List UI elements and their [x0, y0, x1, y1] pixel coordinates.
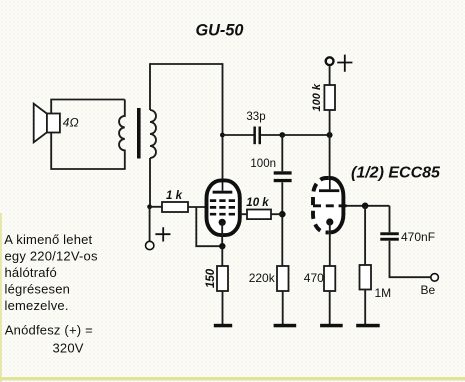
- node D (100k junction): [327, 132, 333, 138]
- node F (cathode junction): [219, 243, 225, 249]
- speaker LS: [34, 104, 60, 143]
- svg-text:(1/2) ECC85: (1/2) ECC85: [351, 165, 441, 182]
- svg-text:Anódfesz (+) =: Anódfesz (+) =: [5, 323, 93, 338]
- terminal Be: [431, 274, 439, 282]
- svg-text:150: 150: [205, 268, 217, 288]
- ground G3: [320, 324, 343, 328]
- wire secondary top: [149, 63, 151, 110]
- svg-text:1 k: 1 k: [166, 190, 183, 202]
- wire top rail: [150, 63, 223, 65]
- terminal +heater: [146, 227, 171, 249]
- wire R-220k to ground: [282, 291, 284, 324]
- terminal +320V: [326, 55, 353, 72]
- node B (33p tap): [220, 133, 225, 138]
- resistor R 150: [217, 266, 228, 291]
- svg-text:10 k: 10 k: [246, 197, 269, 209]
- wire cathode V2 to R-470: [329, 222, 331, 266]
- svg-text:hálótrafó: hálótrafó: [5, 265, 57, 280]
- node C: [279, 132, 285, 138]
- svg-text:Be: Be: [421, 283, 436, 297]
- svg-text:100n: 100n: [250, 158, 276, 170]
- wire grid V1 to R-10k: [241, 213, 248, 215]
- capacitor C 33p: [253, 127, 261, 145]
- svg-text:4Ω: 4Ω: [63, 116, 79, 130]
- wire C-470nF to Be terminal: [390, 241, 431, 278]
- svg-text:A kimenő lehet: A kimenő lehet: [4, 232, 92, 247]
- wire secondary bottom to node: [149, 158, 151, 207]
- ground G1: [214, 324, 232, 328]
- wire R-10k to node E: [271, 213, 282, 215]
- wire cathode V1 down: [221, 222, 223, 246]
- svg-text:220k: 220k: [249, 271, 276, 285]
- wire C-100n to node E: [281, 182, 283, 266]
- capacitor C 100n: [274, 171, 292, 182]
- svg-text:légrésesen: légrésesen: [5, 282, 71, 297]
- resistor R 1k: [162, 202, 188, 212]
- wire cathode loop: [196, 207, 222, 246]
- wire R-470 to ground: [329, 291, 331, 324]
- resistor R 100k: [324, 85, 335, 110]
- svg-text:1M: 1M: [375, 286, 392, 300]
- left yellow border stripe: [0, 213, 2, 382]
- note text: [4, 232, 98, 355]
- node G (grid junction): [362, 203, 369, 210]
- wire R-1M to ground: [364, 290, 366, 325]
- wire node G to R-1M: [364, 206, 366, 265]
- capacitor C 470nF: [380, 232, 399, 240]
- svg-text:320V: 320V: [53, 340, 84, 355]
- wire node to heater terminal: [149, 207, 151, 241]
- wire node B to C-33p: [222, 134, 254, 136]
- wire R-150 to ground: [222, 291, 224, 324]
- resistor R 1M: [360, 265, 372, 290]
- wire node to R-1k: [150, 206, 162, 208]
- svg-text:lemezelve.: lemezelve.: [5, 298, 69, 313]
- svg-text:470: 470: [304, 271, 324, 285]
- wire node C to C-100n: [281, 135, 283, 171]
- resistor R 10k: [247, 210, 271, 220]
- tube V1 GU-50: [207, 180, 240, 235]
- svg-text:100 k: 100 k: [311, 83, 323, 111]
- transformer T1: [119, 100, 156, 170]
- ground G4: [356, 324, 380, 328]
- wire R-1k to grid: [188, 206, 207, 208]
- bottom yellow border stripe: [0, 377, 465, 381]
- wire grid V2 to node G: [347, 205, 390, 207]
- wire C-33p to node C: [261, 134, 282, 136]
- wire anode V1 (top rail down to tube): [222, 63, 224, 178]
- node A (transformer/1k junction): [147, 204, 152, 209]
- wire node C to node D: [282, 134, 329, 136]
- svg-text:egy 220/12V-os: egy 220/12V-os: [5, 249, 98, 264]
- wire speaker loop top: [51, 100, 125, 114]
- svg-text:470nF: 470nF: [401, 230, 435, 244]
- wire anode V2: [329, 135, 331, 190]
- node E (10k/220k junction): [279, 211, 286, 218]
- wire node G branch to C-470nF: [389, 206, 391, 233]
- wire speaker loop bottom: [51, 133, 125, 170]
- wire node F to R-150: [221, 246, 223, 266]
- svg-text:33p: 33p: [246, 111, 265, 123]
- svg-text:GU-50: GU-50: [196, 22, 244, 40]
- resistor R 470: [324, 266, 335, 291]
- wire R-100k to node D: [329, 110, 331, 135]
- resistor R 220k: [277, 266, 289, 291]
- tube V2 ECC85: [313, 178, 347, 232]
- ground G2: [274, 324, 297, 328]
- wire terminal to R-100k: [329, 65, 331, 85]
